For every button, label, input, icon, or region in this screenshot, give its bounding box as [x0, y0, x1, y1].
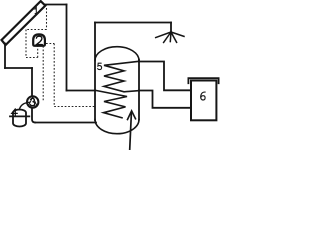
wire: horizontal to pump riser — [5, 67, 32, 69]
wire: box 2 to pump control — [42, 46, 44, 102]
tap stub — [170, 23, 172, 33]
label 1 — [35, 8, 38, 14]
cold water inlet arrow — [130, 113, 132, 151]
box 2 sensor controller — [33, 34, 45, 45]
wire: collector top to down-pipe (hot flow) — [45, 4, 67, 6]
upper heat-exchanger coil — [104, 61, 139, 92]
tank top dome — [95, 47, 139, 61]
solar collector 1 (tilted panel) — [2, 1, 46, 45]
wire: vessel arc to pump — [19, 102, 29, 109]
wire: boiler return B — [139, 91, 191, 108]
wire: vertical hot pipe — [66, 5, 68, 91]
wire: hot water out to tap — [95, 22, 171, 24]
wire: tank sensor vertical — [53, 44, 55, 107]
tap spray — [156, 32, 184, 42]
pump triangle — [28, 97, 37, 106]
vessel membrane line — [10, 115, 29, 117]
wire: collector bottom down — [4, 44, 6, 69]
wire: collector sensor down — [46, 8, 48, 30]
boiler 6 box — [191, 81, 216, 121]
arrow head — [128, 111, 136, 120]
tank 5 left wall + shower riser — [94, 23, 96, 121]
wire: box 2 right stub — [46, 43, 54, 45]
label 2 — [36, 36, 42, 44]
dashed sensor wires — [26, 8, 95, 107]
wire: stub into box 2 — [37, 46, 39, 58]
label 3 — [30, 98, 34, 105]
wire: sensor left vertical — [25, 30, 27, 58]
label 4 — [12, 109, 18, 115]
tank bottom dome — [95, 120, 139, 134]
wire: boiler flow A — [139, 62, 191, 91]
label 6 — [201, 92, 206, 100]
expansion vessel 4 — [13, 110, 26, 127]
wire: pump outlet down — [32, 109, 35, 123]
wire: hot pipe into tank coil — [67, 90, 96, 92]
pump P (circle) — [27, 96, 38, 107]
wire: tank sensor into tank — [54, 106, 95, 108]
wire: sensor horizontal — [26, 29, 47, 31]
label 5 — [98, 63, 102, 69]
tank 5 right wall — [138, 60, 140, 120]
boiler lid — [188, 78, 218, 83]
lower heat-exchanger coil — [95, 90, 127, 118]
wire: sensor bottom horizontal — [26, 57, 38, 59]
wire: pump to tank bottom — [35, 122, 96, 124]
wire: riser into pump — [31, 68, 33, 96]
